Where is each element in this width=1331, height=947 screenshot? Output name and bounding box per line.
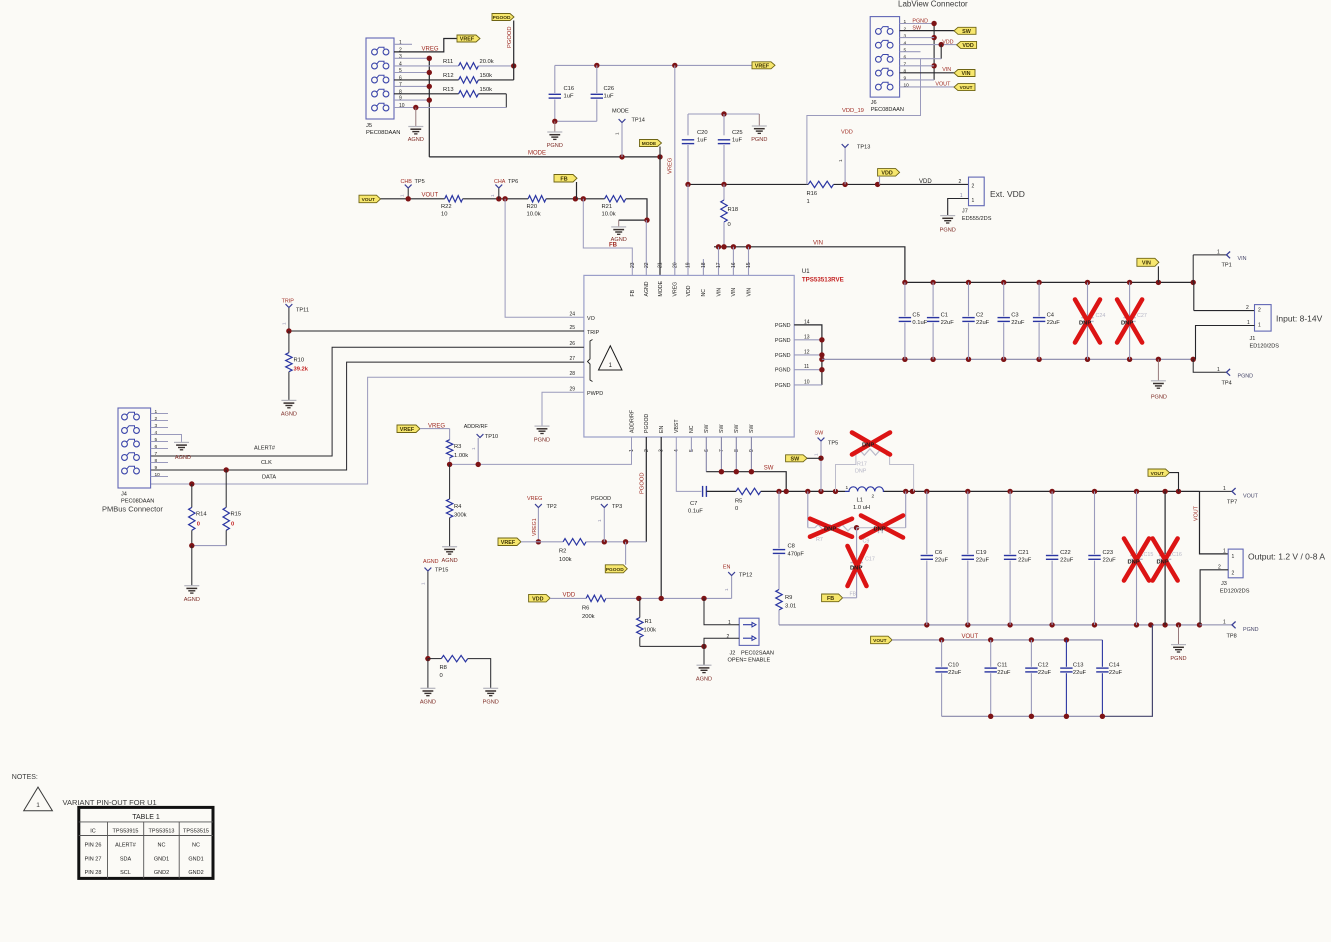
svg-text:0: 0	[440, 673, 443, 679]
svg-text:SW: SW	[912, 26, 922, 32]
svg-text:22uF: 22uF	[1073, 670, 1087, 676]
svg-text:C14: C14	[1109, 663, 1120, 669]
wire input VIN top line	[905, 281, 1193, 283]
flag VREF at R2	[498, 538, 521, 546]
svg-text:J6: J6	[871, 100, 877, 106]
svg-text:1: 1	[421, 582, 426, 585]
svg-text:22: 22	[644, 262, 650, 268]
wire U1 pin11 stub	[794, 369, 822, 371]
svg-text:PGOOD: PGOOD	[644, 413, 650, 433]
U1 variant triangle 1	[599, 346, 623, 370]
svg-text:39.2k: 39.2k	[294, 367, 309, 373]
wire input PGND bottom line	[822, 358, 1193, 360]
capacitor C4 22uF	[1038, 282, 1040, 316]
svg-text:C12: C12	[1038, 663, 1049, 669]
svg-text:J2: J2	[730, 651, 736, 657]
wire R1 bottom to AGND	[640, 645, 704, 647]
svg-text:AGND: AGND	[175, 455, 191, 461]
svg-text:MODE: MODE	[528, 151, 546, 157]
svg-text:26: 26	[569, 341, 575, 347]
svg-text:SDA: SDA	[120, 856, 132, 862]
svg-text:21: 21	[658, 262, 664, 268]
svg-text:PGND: PGND	[775, 368, 791, 374]
svg-text:VREF: VREF	[501, 540, 516, 546]
junction dot J6 VDD	[939, 42, 944, 47]
svg-text:100k: 100k	[644, 628, 657, 634]
DNP X over C16	[1153, 539, 1178, 581]
junction dots SW node	[776, 489, 781, 494]
svg-text:300k: 300k	[454, 513, 467, 519]
junction dot R14 bottom	[189, 543, 194, 548]
wire to AGND below R14	[191, 546, 193, 586]
junction dots TP6/VO	[496, 196, 501, 201]
wire C16-C26 bottom	[555, 120, 597, 122]
wire VIN net to input caps	[714, 247, 905, 283]
svg-text:Input: 8-14V: Input: 8-14V	[1276, 314, 1323, 324]
junction dots output PGND line	[924, 622, 929, 627]
resistor R1 100k	[639, 598, 641, 617]
flag FB at C17	[822, 594, 843, 602]
svg-text:VIN: VIN	[962, 71, 971, 77]
svg-text:VREG: VREG	[527, 496, 542, 502]
resistor R17 DNP parallel L1	[836, 452, 856, 491]
wire J4 pin stubs	[151, 413, 168, 415]
svg-text:VOUT: VOUT	[1151, 471, 1164, 477]
svg-text:1: 1	[1232, 554, 1235, 560]
junction dots SW pins	[719, 469, 724, 474]
svg-text:ADDR/RF: ADDR/RF	[464, 424, 489, 430]
svg-text:20: 20	[672, 262, 678, 268]
svg-text:22uF: 22uF	[941, 320, 955, 326]
svg-text:1: 1	[724, 588, 729, 591]
svg-text:VOUT: VOUT	[962, 634, 979, 640]
svg-text:VOUT: VOUT	[1194, 505, 1200, 521]
junction dot MODE flag	[657, 154, 662, 159]
svg-text:4: 4	[399, 61, 402, 67]
svg-text:1: 1	[471, 447, 476, 450]
svg-text:ALERT#: ALERT#	[115, 843, 137, 849]
flag PGOOD middle	[605, 565, 627, 573]
svg-text:VIN: VIN	[813, 241, 823, 247]
svg-text:VOUT: VOUT	[1243, 494, 1259, 500]
svg-text:2: 2	[872, 494, 875, 500]
svg-text:C19: C19	[976, 550, 987, 556]
wire J5 pin5	[394, 72, 429, 74]
svg-text:1uF: 1uF	[564, 94, 574, 100]
svg-text:J5: J5	[366, 123, 372, 129]
svg-text:2: 2	[1246, 305, 1249, 311]
capacitor C26 1uF	[596, 65, 598, 93]
svg-text:C20: C20	[697, 130, 708, 136]
resistor R2 100k	[563, 539, 586, 545]
ground PGND at PWPD	[535, 425, 550, 427]
connector J7 ED555/2DS Ext VDD	[969, 177, 985, 206]
svg-text:1.0 uH: 1.0 uH	[853, 505, 870, 511]
wire FB flag to C17	[843, 597, 857, 599]
capacitor C19 22uF	[967, 491, 969, 554]
svg-text:9: 9	[904, 76, 907, 82]
resistor R11 20.0k	[394, 65, 459, 67]
svg-text:1: 1	[846, 485, 849, 491]
svg-text:22uF: 22uF	[1047, 320, 1061, 326]
U1 brace pins 26-28	[588, 340, 593, 382]
svg-text:25: 25	[569, 325, 575, 331]
svg-text:VREF: VREF	[755, 63, 770, 69]
svg-text:GND2: GND2	[188, 870, 203, 876]
svg-text:FB: FB	[609, 243, 618, 249]
svg-text:PGND: PGND	[1243, 627, 1259, 633]
ground AGND below J2	[697, 664, 712, 666]
wire output PGND line	[779, 624, 1200, 626]
resistor R16 1	[808, 181, 833, 187]
svg-text:19: 19	[686, 262, 692, 268]
junction dot AGND J5	[413, 105, 418, 110]
capacitor C2 22uF	[968, 282, 970, 316]
capacitor C9 DNP snubber	[857, 527, 877, 529]
svg-text:C25: C25	[732, 130, 743, 136]
junction dots input top	[902, 280, 907, 285]
wire U1 pin13 stub	[794, 339, 822, 341]
wire J6 pin2 SW	[900, 30, 954, 32]
svg-text:J3: J3	[1221, 581, 1227, 587]
svg-text:23: 23	[630, 262, 636, 268]
connector J2 PEC02SAAN	[739, 618, 759, 645]
junction dot R14 top	[189, 481, 194, 486]
wire MODE bus vertical	[428, 58, 430, 157]
svg-text:0.1uF: 0.1uF	[688, 509, 703, 515]
svg-text:FB: FB	[827, 596, 834, 602]
svg-text:VREF: VREF	[460, 37, 475, 43]
svg-text:15: 15	[746, 262, 752, 268]
wire J5 pin1 stub	[394, 43, 412, 45]
DNP X over C27	[1117, 300, 1142, 343]
svg-text:PMBus Connector: PMBus Connector	[102, 505, 163, 514]
wire R13 to AGND loop	[505, 94, 507, 108]
resistor R8 0	[441, 655, 467, 661]
svg-text:CHA: CHA	[494, 179, 506, 185]
svg-text:VDD: VDD	[962, 43, 973, 49]
DNP X over C9	[861, 516, 903, 538]
svg-text:C3: C3	[1011, 313, 1018, 319]
wire PGND top line C20/C25	[688, 113, 759, 115]
svg-text:PGND: PGND	[483, 700, 499, 706]
wire J6 pin9	[900, 79, 935, 81]
svg-text:16: 16	[731, 262, 737, 268]
svg-text:28: 28	[569, 371, 575, 377]
wire R2 to PGOOD	[586, 541, 646, 543]
svg-text:NC: NC	[701, 289, 707, 297]
svg-text:1: 1	[597, 519, 602, 522]
svg-text:6: 6	[155, 444, 158, 450]
svg-text:PGND: PGND	[775, 323, 791, 329]
wire J3 pin2 to PGND	[1200, 570, 1228, 625]
wire J6 pin7	[900, 65, 935, 67]
wire U1 pin15 riser	[748, 247, 750, 276]
wire J6 pin8 VIN	[900, 72, 954, 74]
wire U1 pin5 NC stub	[690, 437, 692, 452]
svg-text:R8: R8	[440, 665, 447, 671]
svg-text:7: 7	[399, 82, 402, 88]
connector J5 PEC08DAAN	[366, 38, 394, 119]
svg-text:R2: R2	[559, 549, 566, 555]
capacitor C5 0.1uF	[904, 282, 906, 316]
svg-text:C21: C21	[1018, 550, 1029, 556]
svg-text:TRIP: TRIP	[587, 330, 600, 336]
svg-text:J4: J4	[121, 492, 127, 498]
wire VREF to R3	[420, 428, 450, 430]
resistor R20 10.0k	[528, 196, 546, 202]
testpoint TP1 VIN	[1193, 254, 1226, 256]
wire AGND to U1 pin22	[645, 220, 647, 275]
wire VIN flag stub	[1157, 266, 1159, 282]
svg-text:200k: 200k	[582, 614, 595, 620]
junction dot TP14	[619, 154, 624, 159]
svg-text:TP13: TP13	[857, 145, 870, 151]
svg-text:22uF: 22uF	[976, 320, 990, 326]
svg-text:R13: R13	[443, 87, 454, 93]
svg-text:SW: SW	[815, 431, 825, 437]
svg-text:PGOOD: PGOOD	[591, 496, 611, 502]
ground PGND input	[1157, 359, 1159, 381]
svg-text:FB: FB	[630, 289, 636, 296]
svg-text:PEC02SAAN: PEC02SAAN	[741, 651, 774, 657]
svg-text:1.00k: 1.00k	[454, 453, 468, 459]
wire VREG riser to U1 pin20	[674, 65, 676, 275]
junction dot snubber mid	[854, 525, 859, 530]
wire VDD rail	[688, 183, 808, 185]
svg-text:C22: C22	[1060, 550, 1071, 556]
svg-text:22uF: 22uF	[948, 670, 962, 676]
svg-text:VBST: VBST	[674, 419, 680, 433]
capacitor C15 DNP	[1136, 491, 1138, 554]
svg-text:GND1: GND1	[154, 856, 169, 862]
svg-text:1: 1	[615, 132, 620, 135]
svg-text:SW: SW	[791, 456, 801, 462]
svg-text:U1: U1	[802, 269, 810, 275]
flag SW labview	[954, 27, 976, 34]
svg-text:R16: R16	[807, 191, 818, 197]
svg-text:C7: C7	[690, 501, 697, 507]
capacitor C10 22uF	[941, 640, 943, 667]
svg-text:3: 3	[904, 33, 907, 39]
svg-text:0.1uF: 0.1uF	[912, 320, 927, 326]
resistor R18 0 vertical	[723, 184, 725, 200]
wire DATA to U1 pin28	[151, 377, 584, 484]
svg-text:1: 1	[399, 40, 402, 46]
connector J1 ED120/2DS input	[1255, 305, 1272, 332]
wire VREF net horizontal	[555, 64, 752, 66]
svg-text:2: 2	[1258, 308, 1261, 314]
svg-text:VARIANT PIN-OUT FOR U1: VARIANT PIN-OUT FOR U1	[63, 798, 157, 807]
svg-text:PGND: PGND	[534, 438, 550, 444]
ground PGND below J7	[940, 215, 955, 217]
svg-text:VIN: VIN	[1142, 260, 1151, 266]
svg-text:PGND: PGND	[1151, 395, 1167, 401]
svg-text:1uF: 1uF	[732, 138, 742, 144]
wire J1 pin1 to PGND	[1196, 326, 1255, 360]
svg-text:AGND: AGND	[423, 559, 439, 565]
ground AGND below R10	[281, 399, 296, 401]
svg-text:ADDR/RF: ADDR/RF	[629, 410, 635, 433]
svg-text:OPEN= ENABLE: OPEN= ENABLE	[728, 658, 771, 664]
capacitor C17 DNP	[856, 528, 858, 561]
svg-text:VDD: VDD	[686, 285, 692, 296]
junction dots J6 PGND bus	[931, 21, 936, 26]
svg-text:R20: R20	[527, 204, 538, 210]
wire U1 pin12 stub	[794, 354, 822, 356]
svg-text:R17: R17	[857, 462, 867, 468]
svg-text:TP10: TP10	[485, 434, 498, 440]
flag VREF at R3	[397, 425, 420, 433]
svg-text:TP5: TP5	[415, 179, 425, 185]
wire J6 PGND bus vertical	[933, 24, 935, 80]
svg-text:SW: SW	[749, 425, 755, 433]
svg-text:GND2: GND2	[154, 870, 169, 876]
ground AGND below R4	[442, 546, 457, 548]
svg-text:PGND: PGND	[912, 19, 928, 25]
ground AGND below TP15	[420, 687, 435, 689]
wire L1 right	[884, 490, 1200, 492]
svg-text:1: 1	[155, 409, 158, 415]
svg-text:PGND: PGND	[1170, 656, 1186, 662]
flag VIN input	[1137, 258, 1159, 266]
svg-text:J7: J7	[962, 209, 968, 215]
svg-text:SW: SW	[764, 466, 774, 472]
wire SW pins bus	[706, 472, 786, 492]
svg-text:SW: SW	[734, 425, 740, 433]
wire PGOOD flag stub	[625, 542, 627, 565]
svg-text:150k: 150k	[480, 73, 493, 79]
capacitor C21 22uF	[1009, 491, 1011, 554]
junction dot J2 gnd	[701, 644, 706, 649]
svg-text:10: 10	[155, 472, 161, 478]
svg-text:J1: J1	[1250, 336, 1256, 342]
junction dot VREG riser	[672, 63, 677, 68]
junction dot TP10	[476, 462, 481, 467]
svg-text:R4: R4	[454, 504, 462, 510]
svg-text:18: 18	[701, 262, 707, 268]
wire U1 pin29 PWPD to PGND	[542, 392, 584, 426]
svg-text:5: 5	[155, 437, 158, 443]
wire U1 pin14 PGND	[794, 325, 822, 385]
capacitor C7 0.1uF	[702, 486, 704, 497]
capacitor C6 22uF	[926, 491, 928, 554]
svg-text:DNP: DNP	[862, 443, 874, 449]
wire J5 pin7	[394, 85, 429, 87]
testpoint TP7 VOUT	[1200, 490, 1233, 492]
svg-text:22uF: 22uF	[976, 558, 990, 564]
svg-text:DNP: DNP	[850, 566, 862, 572]
svg-text:VIN: VIN	[746, 288, 752, 297]
svg-text:1uF: 1uF	[697, 138, 707, 144]
flag VIN labview	[954, 70, 975, 77]
wire VOUT flag to line	[1170, 473, 1179, 492]
ground PGND right of C25	[758, 114, 760, 126]
svg-text:3: 3	[399, 54, 402, 60]
capacitor C16 DNP	[1164, 491, 1166, 554]
svg-text:DNP: DNP	[824, 527, 836, 533]
capacitor C23 22uF	[1094, 491, 1096, 554]
svg-text:Output: 1.2 V / 0-8 A: Output: 1.2 V / 0-8 A	[1248, 552, 1325, 562]
note triangle 1	[24, 787, 53, 811]
svg-text:0: 0	[231, 522, 234, 528]
ground AGND below J5	[408, 126, 423, 128]
svg-text:2: 2	[904, 26, 907, 32]
wire MODE to U1 pin21	[659, 157, 661, 276]
wire U1 pin16 riser	[732, 247, 734, 276]
wire J6 pin4 VDD	[900, 44, 957, 46]
wire VOUT row	[381, 198, 445, 200]
svg-text:PGND: PGND	[775, 353, 791, 359]
svg-text:TPS53515: TPS53515	[183, 828, 209, 834]
svg-text:22uF: 22uF	[1038, 670, 1052, 676]
wire PGOOD flag down to R11/R12	[513, 21, 515, 80]
svg-text:10.0k: 10.0k	[527, 212, 541, 218]
svg-text:R18: R18	[728, 207, 739, 213]
svg-text:DNP: DNP	[1121, 321, 1133, 327]
svg-text:GND1: GND1	[188, 856, 203, 862]
svg-text:5: 5	[904, 47, 907, 53]
svg-text:3: 3	[155, 423, 158, 429]
svg-text:C8: C8	[788, 544, 795, 550]
connector J6 PEC08DAAN	[870, 17, 899, 98]
junction dot TP11	[286, 328, 291, 333]
svg-text:10.0k: 10.0k	[602, 212, 616, 218]
svg-text:1: 1	[904, 19, 907, 25]
wire J2 pin2	[704, 638, 739, 646]
wire J4 pin4 to AGND	[151, 435, 182, 443]
wire VREF flag to R2	[521, 541, 563, 543]
junction dot R3 bottom	[447, 462, 452, 467]
wire VDD_19 net	[940, 45, 942, 59]
resistor R3 1.00k	[449, 429, 451, 440]
svg-text:TP15: TP15	[435, 568, 448, 574]
svg-text:VDD: VDD	[942, 40, 953, 46]
svg-text:TP1: TP1	[1222, 263, 1232, 269]
wire CLK to U1 pin27	[151, 362, 584, 470]
svg-text:8: 8	[399, 89, 402, 95]
junction dots EN row	[636, 596, 641, 601]
svg-text:1: 1	[36, 802, 40, 809]
wire J5 pin3	[394, 57, 429, 59]
svg-text:PGND: PGND	[751, 137, 767, 143]
wire J1 pin2	[1194, 310, 1255, 312]
DNP X over R7	[810, 519, 852, 537]
svg-text:R15: R15	[231, 512, 242, 518]
testpoint TP8 PGND	[1200, 624, 1233, 626]
resistor R7 DNP snubber	[807, 491, 809, 527]
svg-text:470pF: 470pF	[788, 552, 805, 558]
connector J4 PEC08DAAN PMBus	[118, 408, 151, 488]
wire J6 pin6	[900, 58, 942, 60]
svg-text:10: 10	[904, 83, 910, 89]
svg-text:PGND: PGND	[775, 383, 791, 389]
svg-text:0: 0	[728, 222, 731, 228]
svg-text:DNP: DNP	[1079, 321, 1091, 327]
svg-text:DNP: DNP	[874, 527, 886, 533]
svg-text:9: 9	[399, 96, 402, 102]
svg-text:TP12: TP12	[739, 573, 752, 579]
svg-text:R1: R1	[645, 619, 652, 625]
wire AGND below J2	[703, 646, 705, 665]
svg-text:22uF: 22uF	[1011, 320, 1025, 326]
svg-text:CLK: CLK	[261, 460, 272, 466]
svg-text:1: 1	[1223, 549, 1226, 555]
svg-text:C17: C17	[865, 557, 875, 563]
svg-text:ED120/2DS: ED120/2DS	[1220, 589, 1250, 595]
junction dot SW flag	[818, 456, 823, 461]
svg-text:150k: 150k	[480, 87, 493, 93]
